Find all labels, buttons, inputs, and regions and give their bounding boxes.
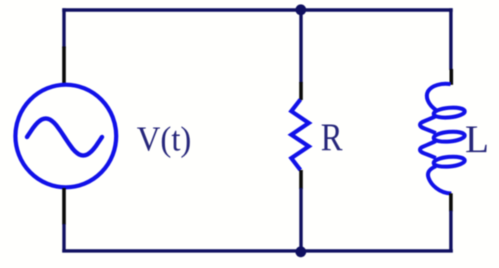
wire right branch lower bbox=[449, 211, 452, 253]
inductor L entry arc bbox=[427, 84, 451, 110]
wire right branch upper bbox=[449, 8, 452, 70]
resistor R zigzag bbox=[291, 100, 309, 171]
wire left branch lower bbox=[62, 224, 65, 253]
svg-text:V(t): V(t) bbox=[137, 120, 192, 159]
wire middle branch upper bbox=[299, 10, 302, 83]
source V1 circle bbox=[15, 85, 116, 188]
inductor L connector arc 1 bbox=[420, 116, 436, 133]
inductor L connector arc 2 bbox=[420, 141, 436, 158]
node top junction bbox=[295, 4, 306, 15]
wire left branch upper lead (black) bbox=[62, 47, 66, 86]
inductor L exit arc bbox=[428, 166, 451, 193]
wire right branch upper lead (black) bbox=[449, 69, 453, 85]
wire bottom horizontal bbox=[62, 249, 453, 252]
node bottom junction bbox=[295, 246, 306, 257]
inductor L loop 3 bbox=[433, 156, 465, 168]
svg-text:L: L bbox=[465, 117, 489, 161]
wire top horizontal bbox=[62, 8, 452, 11]
wire middle branch lower lead (black) bbox=[299, 170, 303, 189]
source V1 sine symbol bbox=[27, 119, 102, 156]
wire right branch lower lead (black) bbox=[449, 193, 453, 211]
wire left branch lower lead (black) bbox=[62, 188, 66, 225]
svg-text:R: R bbox=[321, 116, 343, 159]
inductor L loop 2 bbox=[433, 131, 465, 143]
inductor L loop 1 bbox=[433, 106, 465, 118]
wire left branch upper bbox=[62, 8, 65, 48]
wire middle branch upper lead (black) bbox=[299, 82, 303, 100]
wire middle branch lower bbox=[299, 188, 302, 252]
